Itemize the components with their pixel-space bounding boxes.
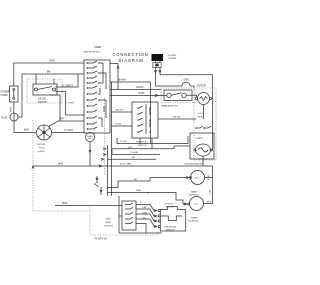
wire plug to motor plug	[14, 121, 36, 133]
svg-text:YL-GRN-V: YL-GRN-V	[62, 85, 73, 87]
wire BK (power cord to timer)	[22, 74, 84, 117]
wire BK-WH into speed switch	[112, 111, 133, 113]
timer box	[84, 60, 110, 133]
centrifugal switch label	[184, 163, 204, 166]
drive motor assembly (dashed)	[197, 85, 206, 88]
start switch box	[190, 133, 214, 159]
connector block pin labels	[168, 55, 177, 60]
motor windings ellipse	[196, 144, 211, 156]
svg-text:START: START	[196, 137, 204, 140]
wire YL-BK into speed switch	[112, 125, 133, 127]
wire YL-WHT from motor plug to timer motor	[52, 132, 85, 134]
motor plug connector	[37, 125, 52, 140]
svg-text:PLUG: PLUG	[39, 147, 45, 149]
motor contact cluster	[196, 126, 203, 128]
svg-text:Y-BK: Y-BK	[142, 207, 147, 209]
motor protector circle	[198, 93, 210, 105]
wire pin right down with arrow	[159, 68, 161, 73]
wire stub into lid switch	[35, 74, 37, 84]
wire BK-WH timer to connector	[110, 82, 151, 144]
wire lid switch to timer	[56, 92, 85, 116]
wire PINK long to pressure switch	[55, 205, 122, 207]
wire YL-GRN-V lid switch up to BK	[56, 74, 79, 87]
svg-text:WHT: WHT	[58, 164, 64, 166]
svg-text:GRN: GRN	[184, 80, 189, 82]
svg-text:PINK: PINK	[136, 190, 142, 192]
svg-text:LID SIG: LID SIG	[38, 99, 46, 101]
svg-text:SWITCH: SWITCH	[38, 102, 47, 104]
pressure switch	[165, 204, 175, 209]
svg-text:WTR: WTR	[106, 219, 111, 221]
svg-text:GRY: GRY	[128, 147, 133, 149]
wire WHT below power cord	[13, 102, 15, 113]
svg-text:MOTOR: MOTOR	[37, 144, 46, 146]
svg-text:AND PUSH SW: AND PUSH SW	[84, 51, 100, 54]
wire bottom bus	[119, 232, 162, 234]
connector pins stubs	[155, 61, 157, 63]
svg-text:WHT: WHT	[11, 106, 13, 112]
svg-text:RINSE: RINSE	[191, 218, 198, 220]
svg-text:CENTRIFUGAL SW: CENTRIFUGAL SW	[184, 163, 204, 166]
water temp switch box	[118, 196, 120, 233]
wire step to bus BU	[108, 178, 151, 188]
svg-text:SWITCH: SWITCH	[166, 230, 175, 232]
wire Y/BL-BK into motor	[158, 118, 196, 120]
wire WHT long (dashed box edge to motor)	[33, 166, 213, 178]
svg-text:BK: BK	[47, 70, 51, 74]
timer T1 label	[84, 47, 101, 54]
wire OR-BU timer to unbalance sw	[110, 89, 161, 91]
svg-text:WASH: WASH	[191, 191, 198, 194]
svg-text:OR-BU: OR-BU	[136, 87, 144, 89]
svg-text:SWITCH: SWITCH	[105, 225, 114, 227]
lid switch box	[33, 84, 57, 95]
bus wire BU to wash solenoid	[150, 177, 186, 179]
bus wire YL-OR	[117, 136, 188, 144]
wash solenoid	[191, 171, 205, 185]
svg-text:PINK: PINK	[62, 203, 68, 205]
power cord terminal block	[10, 86, 19, 102]
svg-text:PRESSURE: PRESSURE	[165, 227, 177, 229]
svg-text:YL-OR: YL-OR	[120, 141, 127, 143]
wire solenoid common return	[204, 178, 213, 204]
wire lid switch to WHT	[50, 95, 60, 121]
svg-text:(4 PIN): (4 PIN)	[38, 151, 45, 153]
contact cluster at console outlet	[107, 145, 109, 196]
rinse solenoid	[190, 197, 204, 211]
wire hump GRN to motor box	[156, 73, 183, 86]
svg-text:L1 WHT: L1 WHT	[67, 103, 75, 105]
svg-text:YL-GRN: YL-GRN	[130, 152, 139, 154]
svg-text:YL-WHT: YL-WHT	[64, 130, 73, 132]
svg-text:DIAGRAM: DIAGRAM	[119, 58, 144, 63]
svg-text:TIMER: TIMER	[94, 47, 101, 49]
wire timer to unbalance switch	[110, 95, 167, 97]
svg-text:BK-WH: BK-WH	[118, 80, 126, 82]
speed switch box	[132, 102, 158, 138]
unbalance switch (dashed box)	[161, 88, 195, 103]
wires temp switch to pressure switch	[136, 205, 157, 211]
svg-text:MOTOR: MOTOR	[197, 85, 206, 88]
bus wire BK	[108, 158, 157, 160]
svg-text:CONNECTION: CONNECTION	[113, 52, 149, 57]
svg-text:SWITCH: SWITCH	[138, 145, 147, 147]
svg-text:YL/BK: YL/BK	[138, 93, 145, 95]
wire pin left down with arrow	[155, 68, 157, 73]
svg-text:PLUG: PLUG	[1, 117, 8, 120]
svg-text:W-YL-GRN: W-YL-GRN	[120, 164, 131, 166]
svg-text:MTR: MTR	[88, 138, 93, 140]
svg-text:UNBALANCE SW: UNBALANCE SW	[161, 104, 178, 107]
console dashed boundary	[33, 120, 90, 211]
svg-text:18-P/BU: 18-P/BU	[168, 55, 177, 57]
fuse F1 box	[153, 63, 161, 68]
svg-text:TO WTR VLV: TO WTR VLV	[94, 239, 108, 241]
svg-text:Y/BL-BK: Y/BL-BK	[172, 117, 181, 119]
svg-text:YL-BK: YL-BK	[115, 124, 122, 126]
svg-text:TEMP: TEMP	[105, 222, 112, 224]
title CONNECTION DIAGRAM	[113, 52, 149, 63]
svg-text:WTR LVL: WTR LVL	[165, 204, 175, 206]
svg-text:SOLENOID: SOLENOID	[188, 221, 199, 223]
plug P1	[10, 113, 18, 121]
wire right pin bus down to motor (y73)	[160, 73, 213, 150]
svg-text:CORD: CORD	[1, 94, 8, 97]
svg-text:GRN: GRN	[49, 59, 55, 63]
wire PINK to rinse solenoid	[108, 193, 186, 205]
arrow stub node	[110, 64, 118, 90]
timer motor M1	[85, 132, 94, 141]
wire GRN (power cord to timer)	[14, 63, 84, 86]
connector block J1 (black)	[152, 54, 164, 61]
bus wire YL-GRN	[112, 149, 160, 155]
svg-text:SWITCH: SWITCH	[166, 207, 175, 209]
timer contacts column	[87, 61, 106, 130]
svg-text:PUSH-PULL: PUSH-PULL	[136, 141, 149, 143]
lid switch assembly (dashed)	[27, 79, 62, 103]
svg-text:BK-WH: BK-WH	[116, 110, 124, 112]
svg-text:P-BK: P-BK	[142, 212, 147, 214]
svg-text:WHT: WHT	[24, 130, 30, 132]
svg-text:18-P/BK: 18-P/BK	[168, 58, 177, 60]
svg-text:OVLD: OVLD	[198, 113, 204, 115]
bus wire GRY	[112, 146, 190, 149]
wire WHT from motor plug top to timer	[49, 121, 85, 127]
